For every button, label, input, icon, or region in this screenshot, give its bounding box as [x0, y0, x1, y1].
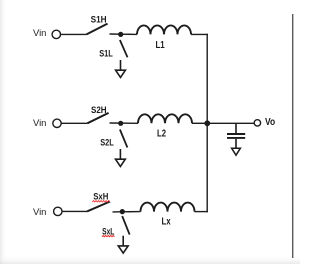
svg-text:Vin: Vin	[33, 28, 46, 39]
svg-text:L2: L2	[157, 127, 166, 139]
svg-text:Vin: Vin	[33, 118, 46, 129]
svg-text:S1H: S1H	[91, 14, 107, 25]
svg-text:S1L: S1L	[99, 49, 113, 60]
svg-text:Vin: Vin	[33, 207, 46, 218]
svg-text:L1: L1	[156, 39, 165, 51]
svg-text:Vo: Vo	[265, 117, 275, 128]
svg-text:S2H: S2H	[91, 105, 107, 116]
svg-text:Lx: Lx	[162, 216, 171, 228]
svg-text:S2L: S2L	[100, 138, 114, 149]
